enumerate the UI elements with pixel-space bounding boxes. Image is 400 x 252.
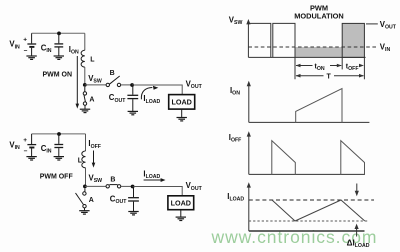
wire switch B to output node (PWM OFF) [121, 185, 133, 187]
wire VSW to switch B (PWM OFF) [85, 185, 106, 187]
inductor L (PWM ON) [81, 50, 85, 67]
wire inductor to VSW node [84, 67, 86, 84]
ground under CIN (PWM ON) [54, 56, 64, 59]
waveform IOFF sawtooth 1 [272, 141, 296, 175]
dimension arrows tOFF [359, 64, 364, 68]
LOAD box (PWM OFF) [168, 196, 194, 210]
svg-text:LOAD: LOAD [171, 198, 191, 207]
wire top rail (PWM OFF) [32, 133, 86, 135]
svg-text:PWM OFF: PWM OFF [40, 173, 74, 180]
node VSW dot (PWM OFF) [83, 185, 87, 189]
ground under switch A (PWM OFF) [79, 211, 89, 214]
ground under COUT (PWM OFF) [128, 212, 138, 215]
wire node to VOUT corner [132, 85, 182, 95]
wire switch B to output node [121, 84, 132, 86]
capacitor CIN (PWM ON) [54, 33, 63, 56]
waveform IOFF sawtooth 2 [341, 141, 365, 175]
axis ION vertical with arrow [247, 81, 251, 123]
svg-text:MODULATION: MODULATION [294, 12, 344, 21]
wire rail corner down to inductor (PWM OFF) [85, 134, 87, 151]
baseline ILOAD [249, 230, 365, 232]
svg-text:A: A [89, 97, 94, 104]
svg-text:L: L [78, 158, 83, 165]
svg-text:B: B [110, 176, 115, 183]
current arrow IOFF direction [92, 151, 96, 168]
node junction dot at CIN top [57, 32, 61, 36]
ground under LOAD (PWM ON) [177, 118, 187, 121]
wire LOAD box to ground (PWM OFF) [180, 210, 182, 217]
axis IOFF vertical with arrow [247, 131, 251, 174]
svg-text:PWM ON: PWM ON [43, 72, 73, 79]
axis VSW vertical with arrow [246, 19, 250, 57]
baseline VSW [248, 56, 365, 58]
arrow down to ILOAD max [355, 184, 359, 197]
capacitor COUT (PWM OFF) [128, 187, 139, 212]
dashed line VIN level [248, 46, 376, 48]
LOAD box (PWM ON) [169, 95, 195, 110]
waveform ION ramp [296, 89, 342, 123]
capacitor COUT (PWM ON) [127, 85, 138, 111]
node output junction dot (PWM ON) [130, 83, 134, 87]
gray band tON low region [295, 47, 342, 57]
dimension arrows T [296, 74, 364, 78]
wire VSW to switch B [85, 84, 106, 86]
ground under battery (PWM OFF) [26, 157, 36, 160]
baseline IOFF [249, 173, 365, 175]
svg-text:+: + [23, 37, 27, 44]
ground under CIN (PWM OFF) [54, 157, 64, 160]
svg-text:+: + [23, 137, 27, 144]
svg-text:A: A [89, 197, 94, 204]
ground under battery (PWM ON) [26, 56, 36, 59]
inductor L (PWM OFF) [82, 151, 86, 168]
ground under LOAD (PWM OFF) [176, 217, 186, 220]
battery VIN (PWM ON) [27, 33, 36, 56]
wire LOAD box to ground [181, 109, 183, 117]
baseline ION [249, 121, 370, 123]
switch B open (PWM ON) [106, 76, 121, 87]
ground under COUT (PWM ON) [128, 111, 138, 114]
svg-text:−: − [24, 47, 28, 54]
wire rail corner down to inductor [84, 33, 86, 50]
gray pulse tOFF [342, 23, 364, 57]
wire node to VOUT corner (PWM OFF) [133, 187, 183, 196]
node junction dot at CIN top (PWM OFF) [57, 132, 61, 136]
wire inductor to VSW node (PWM OFF) [84, 168, 87, 187]
switch A open (PWM OFF) [76, 188, 87, 210]
wire top rail (PWM ON) [32, 32, 85, 34]
waveform VSW pulses [248, 23, 295, 57]
battery VIN (PWM OFF) [27, 134, 36, 157]
current arrow ILOAD curved (PWM ON) [141, 86, 158, 100]
dashed line ILOAD min [249, 220, 368, 222]
ground under switch A (PWM ON) [80, 109, 90, 112]
svg-text:−: − [24, 148, 28, 155]
tick line tON start [294, 57, 296, 79]
dimension arrows tON [296, 64, 342, 68]
VOUT level dash [366, 23, 378, 25]
switch A closed (PWM ON) [83, 87, 87, 109]
current arrow ION direction [76, 56, 80, 109]
waveform ILOAD triangle [272, 200, 365, 221]
svg-text:B: B [110, 70, 115, 77]
svg-text:L: L [90, 57, 95, 64]
axis ILOAD vertical with arrow [247, 182, 251, 231]
node VSW dot (PWM ON) [83, 83, 87, 87]
tick line tON end [341, 57, 343, 69]
tick line tOFF end [363, 57, 365, 79]
svg-text:T: T [327, 73, 332, 80]
node output junction dot (PWM OFF) [131, 185, 135, 189]
capacitor CIN (PWM OFF) [54, 134, 63, 157]
current arrow ILOAD straight (PWM OFF) [144, 178, 166, 182]
arrow up to ILOAD min [355, 224, 359, 237]
switch B closed (PWM OFF) [106, 185, 121, 188]
dashed line ILOAD max [249, 199, 374, 201]
svg-text:LOAD: LOAD [172, 98, 192, 107]
